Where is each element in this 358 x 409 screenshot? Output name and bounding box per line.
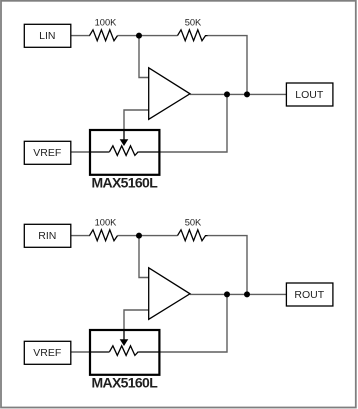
wiper arrow (top circuit) (120, 129, 129, 146)
svg-text:RIN: RIN (38, 230, 56, 242)
node A junction dot (top) (136, 33, 142, 39)
potentiometer element (top circuit) (90, 146, 161, 156)
resistor 50K (top circuit) (178, 17, 208, 40)
wiper arrow (bottom circuit) (120, 329, 129, 346)
wire op-amp output to ROUT (190, 293, 286, 295)
wire VREF to pot left terminal (71, 351, 90, 353)
svg-text:MAX5160L: MAX5160L (91, 375, 158, 391)
resistor 50K (bottom circuit) (178, 217, 208, 240)
output box LOUT (286, 83, 333, 106)
output box ROUT (286, 283, 333, 306)
output node dot 2 (top) (244, 91, 250, 97)
svg-text:ROUT: ROUT (294, 289, 324, 301)
resistor 100K (bottom circuit) (90, 217, 118, 240)
svg-text:LIN: LIN (39, 30, 55, 42)
svg-text:MAX5160L: MAX5160L (91, 175, 158, 191)
svg-text:100K: 100K (95, 17, 118, 27)
potentiometer element (bottom circuit) (90, 346, 161, 356)
svg-text:50K: 50K (185, 217, 202, 227)
output node dot 1 (top) (224, 91, 230, 97)
wire RIN to 100K resistor (71, 235, 91, 237)
op-amp U1 (top circuit) (149, 68, 190, 120)
svg-text:100K: 100K (95, 217, 118, 227)
digital pot MAX5160L box (bottom circuit) (90, 330, 159, 391)
wire 50K resistor to feedback corner (208, 36, 248, 95)
input box RIN (24, 224, 71, 247)
node B junction dot (bottom) (136, 233, 142, 239)
wire 100K resistor to node A (118, 35, 140, 37)
wire op-amp output to LOUT (190, 93, 286, 95)
output node dot 1 (bottom) (224, 291, 230, 297)
op-amp U2 (bottom circuit) (149, 268, 190, 320)
wire node A down to op-amp inverting input (139, 36, 149, 78)
output node dot 2 (bottom) (244, 291, 250, 297)
wire node A to 50K resistor (139, 35, 178, 37)
input box LIN (24, 24, 71, 47)
wire 100K resistor to node B (118, 235, 140, 237)
wire 50K resistor to feedback corner (208, 236, 248, 295)
wire op-amp noninverting input to wiper (124, 310, 149, 331)
svg-text:LOUT: LOUT (295, 89, 324, 101)
wire node B down to op-amp inverting input (139, 236, 149, 278)
svg-text:50K: 50K (185, 17, 202, 27)
wire LIN to 100K resistor (71, 35, 91, 37)
wire output node down to pot right terminal (159, 294, 227, 352)
svg-text:VREF: VREF (33, 347, 61, 359)
input box VREF (bottom circuit) (24, 341, 71, 364)
input box VREF (top circuit) (24, 141, 71, 164)
wire node B to 50K resistor (139, 235, 178, 237)
wire VREF to pot left terminal (71, 151, 90, 153)
wire output node down to pot right terminal (159, 94, 227, 152)
digital pot MAX5160L box (top circuit) (90, 130, 159, 191)
resistor 100K (top circuit) (90, 17, 118, 40)
wire op-amp noninverting input to wiper (124, 110, 149, 131)
svg-text:VREF: VREF (33, 147, 61, 159)
